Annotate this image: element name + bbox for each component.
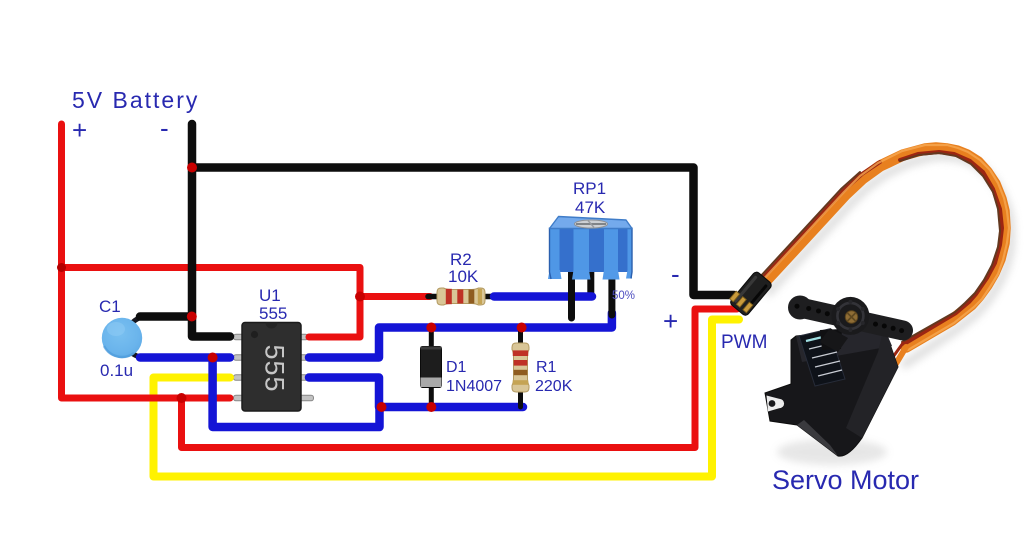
servo body right facet bbox=[846, 327, 898, 438]
IC U1 555 body bbox=[242, 323, 301, 412]
servo horn arm bbox=[788, 296, 912, 353]
wire blue: pin2 junction loop under IC bbox=[213, 358, 380, 428]
junction dot red R2 branch bbox=[355, 292, 365, 302]
svg-text:50%: 50% bbox=[612, 290, 635, 302]
wire blue: 555 pin6 down to bottom rail bbox=[309, 378, 379, 408]
svg-text:RP1: RP1 bbox=[573, 179, 606, 198]
servo connector plug body bbox=[729, 271, 773, 317]
svg-text:1N4007: 1N4007 bbox=[446, 378, 502, 395]
potentiometer RP1 left leg bbox=[568, 272, 575, 318]
wire red: bottom rail to servo plus pin bbox=[182, 309, 738, 448]
servo cable strands behind body right edge bbox=[885, 343, 906, 375]
svg-text:-: - bbox=[160, 113, 169, 143]
servo body bbox=[765, 327, 898, 456]
svg-text:220K: 220K bbox=[535, 378, 573, 395]
wire black: C1 top lead to junction bbox=[140, 312, 192, 321]
svg-text:-: - bbox=[671, 259, 680, 289]
junction dot C1 black wire bbox=[187, 312, 197, 322]
potentiometer RP1 right leg (wiper) bbox=[608, 272, 615, 315]
svg-text:PWM: PWM bbox=[721, 332, 767, 353]
wire red: battery + left vertical down to 555 pin4 bbox=[62, 124, 231, 398]
servo horn holes bbox=[795, 304, 905, 333]
svg-text:47K: 47K bbox=[575, 198, 606, 217]
servo cable dark red stripe inner segment bbox=[900, 152, 1002, 344]
wire blue: R2 right lead to RP1 middle leg bbox=[494, 292, 592, 301]
junction dot R1 top bbox=[517, 323, 527, 333]
junction dot blue rail left bbox=[377, 402, 387, 412]
wire black: top rail to servo minus pin bbox=[192, 168, 734, 296]
wire yellow: 555 pin3 output loop to servo PWM bbox=[154, 320, 740, 477]
svg-text:555: 555 bbox=[259, 304, 287, 323]
servo shadow bbox=[777, 439, 887, 465]
junction dot red pin4 wire bbox=[177, 393, 187, 403]
servo body top face bbox=[796, 327, 892, 362]
junction dot D1 top bbox=[426, 323, 436, 333]
junction dot D1 bottom bbox=[426, 402, 436, 412]
resistor R2 leads bbox=[428, 294, 496, 300]
potentiometer RP1 middle leg bbox=[587, 272, 594, 296]
servo output shaft bbox=[820, 329, 842, 350]
servo label sticker bbox=[799, 329, 845, 386]
svg-text:+: + bbox=[72, 115, 87, 145]
resistor R1 leads bbox=[518, 328, 523, 408]
wire red: top rail to 555 pin8 bbox=[62, 268, 361, 338]
svg-text:5V Battery: 5V Battery bbox=[72, 87, 199, 113]
capacitor C1 leads bbox=[133, 317, 142, 357]
svg-text:C1: C1 bbox=[99, 297, 121, 316]
resistor R2 body bbox=[437, 288, 485, 305]
svg-text:10K: 10K bbox=[448, 267, 479, 286]
diode D1 body bbox=[421, 347, 442, 388]
svg-text:R1: R1 bbox=[536, 359, 557, 376]
servo cable brown edge outer segment bbox=[758, 172, 860, 279]
servo cable highlight bbox=[761, 145, 1009, 350]
servo connector gold pins bbox=[730, 291, 753, 313]
diode D1 leads bbox=[429, 328, 434, 408]
servo body bottom bevel bbox=[797, 420, 838, 456]
junction dot red top-left corner bbox=[57, 263, 66, 272]
wire blue: 555 pin7 to wiper rail of RP1 bbox=[309, 313, 612, 358]
servo horn hub bbox=[831, 297, 869, 335]
wire blue: C1 bottom to 555 pin2 bbox=[140, 353, 230, 362]
wire black: battery - vertical to 555 pin1 bbox=[192, 124, 230, 337]
capacitor C1 body bbox=[102, 318, 142, 358]
resistor R1 body bbox=[512, 343, 529, 392]
servo cable brown inner edge segment bbox=[900, 153, 1000, 342]
svg-text:Servo Motor: Servo Motor bbox=[772, 465, 919, 495]
servo cable shadow bbox=[769, 156, 1011, 364]
servo cable orange ribbon bbox=[763, 148, 1005, 347]
svg-text:D1: D1 bbox=[446, 359, 467, 376]
svg-text:0.1u: 0.1u bbox=[100, 361, 133, 380]
wire red: branch to R2 left lead bbox=[360, 293, 430, 300]
junction dot black top rail bbox=[187, 163, 197, 173]
junction dot blue pin2 bbox=[208, 353, 218, 363]
IC U1 pin stubs (left 1-4, right 8-5) bbox=[234, 334, 314, 401]
svg-text:U1: U1 bbox=[259, 286, 281, 305]
svg-text:+: + bbox=[663, 306, 678, 336]
wire blue: bottom rail D1 R1 bbox=[380, 403, 524, 412]
servo cable dark red stripe outer segment bbox=[760, 162, 880, 281]
servo flange notch bbox=[767, 396, 785, 412]
potentiometer RP1 body bbox=[548, 217, 632, 280]
svg-text:555: 555 bbox=[260, 344, 290, 392]
